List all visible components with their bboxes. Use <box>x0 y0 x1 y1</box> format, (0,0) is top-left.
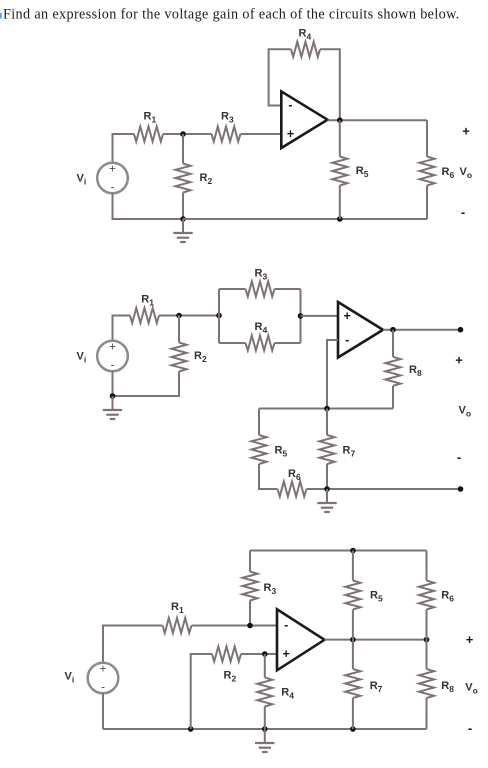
node: box output (circuit 2) <box>298 313 304 319</box>
wire: R5 bottom lead (circuit 3) <box>352 610 354 640</box>
resistor R2 (circuit 3) <box>212 647 241 662</box>
wire: R2 bottom lead (circuit 2) <box>113 372 180 397</box>
wire: R6 top lead (circuit 1) <box>426 120 428 156</box>
svg-text:+: + <box>344 309 351 323</box>
voltage source Vi (circuit 3) <box>88 663 119 694</box>
svg-text:-: - <box>457 450 461 465</box>
wire: R5 top lead (circuit 2) <box>258 409 260 436</box>
wire: feedback from - input (circuit 2) <box>327 340 338 409</box>
resistor R3 (circuit 2) <box>246 282 275 297</box>
node: box input (circuit 2) <box>216 313 222 319</box>
wire: R6 top lead (circuit 3) <box>426 551 428 581</box>
resistor R4 (circuit 2) <box>246 336 275 351</box>
wire: R1 to op-amp - input (circuit 3) <box>192 625 278 627</box>
svg-text:-: - <box>468 721 472 736</box>
ground (circuit 2) <box>103 396 122 419</box>
svg-text:-: - <box>111 182 115 194</box>
resistor R1 (circuit 2) <box>130 308 159 323</box>
wire: R6 bottom lead (circuit 3) <box>426 610 428 640</box>
wire: op-amp - input to feedback (circuit 1) <box>269 49 291 105</box>
voltage source Vi (circuit 2) <box>97 341 128 372</box>
terminal: output - (circuit 2) <box>458 486 464 492</box>
wire: R8 top lead (circuit 3) <box>426 640 428 669</box>
wire: output row (circuit 3) <box>325 639 427 641</box>
node: output (circuit 1) <box>337 117 343 123</box>
wire: R2 top lead (circuit 2) <box>178 316 180 343</box>
wire: Vi bottom lead (circuit 2) <box>112 371 114 396</box>
resistor R4 (circuit 1) <box>291 42 320 57</box>
wire: box to op-amp + input (circuit 2) <box>301 315 339 317</box>
resistor R6 (circuit 1) <box>420 157 435 186</box>
wire: bottom rail right (circuit 2) <box>307 488 461 490</box>
svg-text:+: + <box>109 163 116 175</box>
wire: R7 bottom lead (circuit 2) <box>326 464 328 489</box>
ground (circuit 2) <box>317 489 336 512</box>
op-amp U1 (circuit 1) <box>281 91 327 148</box>
wire: R4 to output node (circuit 1) <box>320 49 340 120</box>
wire: R3 top lead (circuit 3) <box>249 551 251 572</box>
wire: R7 top lead (circuit 3) <box>352 640 354 669</box>
resistor R1 (circuit 1) <box>134 127 163 142</box>
wire: bottom rail (circuit 3) <box>103 728 427 730</box>
terminal: output + (circuit 2) <box>458 327 464 333</box>
voltage source Vi (circuit 1) <box>97 163 128 194</box>
node: + input junction (circuit 3) <box>262 651 268 657</box>
wire: Vi top lead to R1 (circuit 3) <box>103 626 163 664</box>
node: R5 bottom junction (circuit 1) <box>337 216 343 222</box>
wire: R8 top lead (circuit 2) <box>392 330 394 357</box>
wire: R3 to op-amp + input (circuit 1) <box>241 133 282 135</box>
svg-text:+: + <box>466 632 474 647</box>
node: ground junction (circuit 2) <box>110 393 116 399</box>
resistor R5 (circuit 3) <box>345 581 360 610</box>
wire: R5 top lead (circuit 1) <box>339 120 341 156</box>
wire: R4 bottom lead (circuit 3) <box>264 707 266 730</box>
wire: R5 bottom lead (circuit 1) <box>339 186 341 220</box>
node: R7 bottom junction (circuit 3) <box>350 726 356 732</box>
wire: R4 top lead (circuit 3) <box>264 654 266 678</box>
wire: parallel box right branch (circuit 2) <box>300 289 302 343</box>
node: output R5/R7 (circuit 3) <box>350 637 356 643</box>
wire: R1 to parallel box (circuit 2) <box>159 315 219 317</box>
node: ground junction bottom (circuit 2) <box>324 486 330 492</box>
svg-text:+: + <box>100 663 107 675</box>
wire: R2 left branch (circuit 3) <box>191 654 212 729</box>
wire: R1 to R3 through node (circuit 1) <box>163 133 212 135</box>
resistor R3 (circuit 3) <box>243 572 258 601</box>
svg-text:+: + <box>462 124 470 139</box>
svg-text:+: + <box>283 647 290 661</box>
wire: bottom rail (circuit 1) <box>183 218 427 220</box>
node: top rail junction (circuit 3) <box>350 548 356 554</box>
wire: R3 bottom lead (circuit 3) <box>249 601 251 626</box>
wire: parallel box left branch (circuit 2) <box>218 289 220 343</box>
resistor R8 (circuit 3) <box>419 669 434 698</box>
wire: R2 top lead (circuit 1) <box>182 134 184 164</box>
svg-text:Find an expression for the vol: Find an expression for the voltage gain … <box>3 7 460 23</box>
node: R2 branch bottom (circuit 3) <box>188 726 194 732</box>
resistor R7 (circuit 3) <box>345 669 360 698</box>
svg-text:+: + <box>109 341 116 353</box>
svg-text:-: - <box>461 205 465 220</box>
node: output (circuit 2) <box>390 327 396 333</box>
resistor R2 (circuit 1) <box>176 164 191 193</box>
resistor R5 (circuit 1) <box>332 157 347 186</box>
resistor R2 (circuit 2) <box>172 343 187 372</box>
op-amp U2 (circuit 2) <box>338 302 383 358</box>
wire: Vi top lead to R1 (circuit 1) <box>113 134 135 164</box>
op-amp U3 (circuit 3) <box>277 609 325 670</box>
resistor R6 (circuit 3) <box>419 581 434 610</box>
resistor R1 (circuit 3) <box>163 618 192 633</box>
svg-text:+: + <box>455 353 463 368</box>
svg-text:-: - <box>101 682 105 694</box>
wire: output row (circuit 1) <box>328 119 428 121</box>
resistor R3 (circuit 1) <box>212 127 241 142</box>
node: output R6/R8 (circuit 3) <box>424 637 430 643</box>
wire: top rail (circuit 3) <box>250 550 427 552</box>
ground (circuit 3) <box>255 729 274 752</box>
wire: Vi bottom lead to bottom rail (circuit 1) <box>113 193 184 219</box>
node: - input junction (circuit 3) <box>247 623 253 629</box>
resistor R5 (circuit 2) <box>252 435 267 464</box>
wire: R6 bottom lead (circuit 1) <box>426 186 428 220</box>
resistor R8 (circuit 2) <box>386 357 401 386</box>
wire: box top branch left (circuit 2) <box>219 288 246 290</box>
wire: R5 top lead (circuit 3) <box>352 551 354 581</box>
svg-text:-: - <box>284 618 288 632</box>
wire: R8 bottom lead (circuit 2) <box>392 386 394 409</box>
wire: R2 to + input node (circuit 3) <box>241 653 277 655</box>
wire: Vi top lead to R1 (circuit 2) <box>113 316 131 342</box>
cut-off list marker at left edge <box>0 13 2 19</box>
wire: R2 bottom lead (circuit 1) <box>182 193 184 220</box>
wire: box bottom branch right (circuit 2) <box>275 342 301 344</box>
svg-text:-: - <box>345 333 349 347</box>
resistor R6 (circuit 2) <box>278 482 307 497</box>
resistor R4 (circuit 3) <box>257 678 272 707</box>
node: ground junction (circuit 1) <box>180 216 186 222</box>
wire: output row (circuit 2) <box>383 329 461 331</box>
svg-text:+: + <box>287 127 294 141</box>
node: feedback junction (circuit 2) <box>324 406 330 412</box>
svg-text:-: - <box>111 360 115 372</box>
wire: mid rail (circuit 2) <box>259 408 393 410</box>
wire: R7 bottom lead (circuit 3) <box>352 698 354 729</box>
wire: Vi bottom lead (circuit 3) <box>102 693 104 729</box>
node: R1/R2 junction (circuit 2) <box>176 313 182 319</box>
resistor R7 (circuit 2) <box>320 435 335 464</box>
wire: box bottom branch left (circuit 2) <box>219 342 246 344</box>
ground (circuit 1) <box>173 219 192 242</box>
wire: R7 top lead (circuit 2) <box>326 409 328 436</box>
wire: R8 bottom lead (circuit 3) <box>426 698 428 729</box>
svg-text:-: - <box>288 98 292 112</box>
wire: R5 bottom lead (circuit 2) <box>259 464 278 489</box>
node: ground junction (circuit 3) <box>262 726 268 732</box>
wire: box top branch right (circuit 2) <box>275 288 301 290</box>
node: R1/R2 junction (circuit 1) <box>180 131 186 137</box>
